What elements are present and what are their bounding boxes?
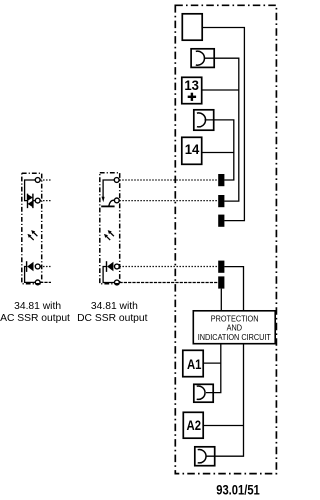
terminal circle AC-3 — [35, 264, 40, 269]
terminal circle DC-2 — [114, 198, 119, 203]
opto arrows DC — [107, 233, 114, 241]
svg-text:INDICATION CIRCUIT: INDICATION CIRCUIT — [198, 333, 271, 343]
dashed line DC-4 to pin5 — [120, 282, 219, 284]
terminal circle DC-4 — [115, 280, 120, 285]
wire S2 to pin1 bus — [205, 120, 234, 180]
module outline 93.01/51 — [175, 5, 276, 473]
terminal A2 — [183, 412, 203, 438]
svg-text:A1: A1 — [187, 356, 202, 373]
transistor (DC SSR output) — [102, 197, 105, 203]
pin 2 — [218, 195, 224, 207]
wire protection circuit to A1 bus — [206, 344, 221, 393]
terminal circle AC-4 — [35, 280, 40, 285]
stub row4 AC — [40, 281, 51, 283]
socket contact S3 — [194, 384, 213, 402]
svg-text:13: 13 — [184, 78, 199, 93]
terminal circle AC-1 — [35, 178, 40, 183]
svg-text:34.81 with: 34.81 with — [91, 301, 138, 312]
svg-text:14: 14 — [185, 142, 200, 157]
svg-text:DC SSR output: DC SSR output — [77, 313, 148, 324]
terminal circle AC-2 — [35, 198, 40, 203]
wire terminal 14 to pin1 bus — [202, 152, 234, 154]
pin 1 — [218, 174, 224, 186]
svg-text:A2: A2 — [187, 417, 202, 434]
socket contact S2 — [194, 110, 214, 130]
triac — [28, 194, 33, 209]
wire AC-1 to triac — [25, 180, 36, 201]
svg-text:34.81 with: 34.81 with — [14, 301, 61, 312]
stub row1 AC — [40, 179, 51, 181]
pin 5 — [218, 276, 224, 288]
svg-text:93.01/51: 93.01/51 — [216, 483, 260, 498]
dotted line DC-3 to pin4 — [120, 266, 219, 268]
wire pin4 to protection circuit — [224, 267, 243, 311]
protection and indication circuit U1 — [193, 311, 275, 344]
terminal box T1 (top blank terminal) — [182, 14, 202, 40]
wire DC-1 to transistor — [103, 180, 114, 197]
terminal circle DC-1 — [114, 178, 119, 183]
plus mark of terminal 13 — [188, 96, 196, 98]
terminal 14 — [182, 137, 202, 164]
terminal A1 — [183, 350, 203, 376]
svg-text:PROTECTION: PROTECTION — [211, 314, 259, 324]
socket contact S4 — [195, 447, 215, 466]
terminal 13 — [182, 77, 202, 103]
wire protection circuit to A2 bus — [206, 344, 244, 457]
wire triac to terminal circle AC-2 — [33, 200, 35, 202]
svg-text:AND: AND — [227, 323, 243, 333]
LED diode AC input — [26, 261, 28, 272]
stub row2 AC — [40, 200, 51, 202]
terminal circle DC-3 — [115, 264, 120, 269]
wire S1 to pin2 bus — [205, 58, 239, 201]
wire terminal 13 to pin2 bus — [202, 89, 239, 91]
svg-text:AC SSR output: AC SSR output — [0, 313, 70, 324]
wire LED to terminal circle DC-4 — [103, 267, 114, 283]
dotted line DC-2 to pin2 — [119, 200, 218, 202]
LED diode DC input — [106, 261, 108, 272]
dotted line DC-1 to pin1 — [119, 179, 218, 181]
wire terminal A1 to bus — [204, 362, 221, 364]
wire T1 to pin3 bus — [202, 28, 244, 221]
pin 4 — [218, 261, 224, 273]
module 34.81 DC SSR outline — [100, 173, 120, 284]
socket contact S1 — [191, 49, 214, 68]
wire LED to terminal circle AC-4 — [25, 267, 36, 283]
wire pin5 to protection circuit — [220, 289, 222, 311]
opto arrows AC — [30, 233, 37, 241]
stub row3 AC — [40, 266, 51, 268]
module 34.81 AC SSR outline — [22, 173, 42, 283]
wire terminal A2 to bus — [204, 425, 244, 427]
pin 3 — [218, 215, 224, 227]
